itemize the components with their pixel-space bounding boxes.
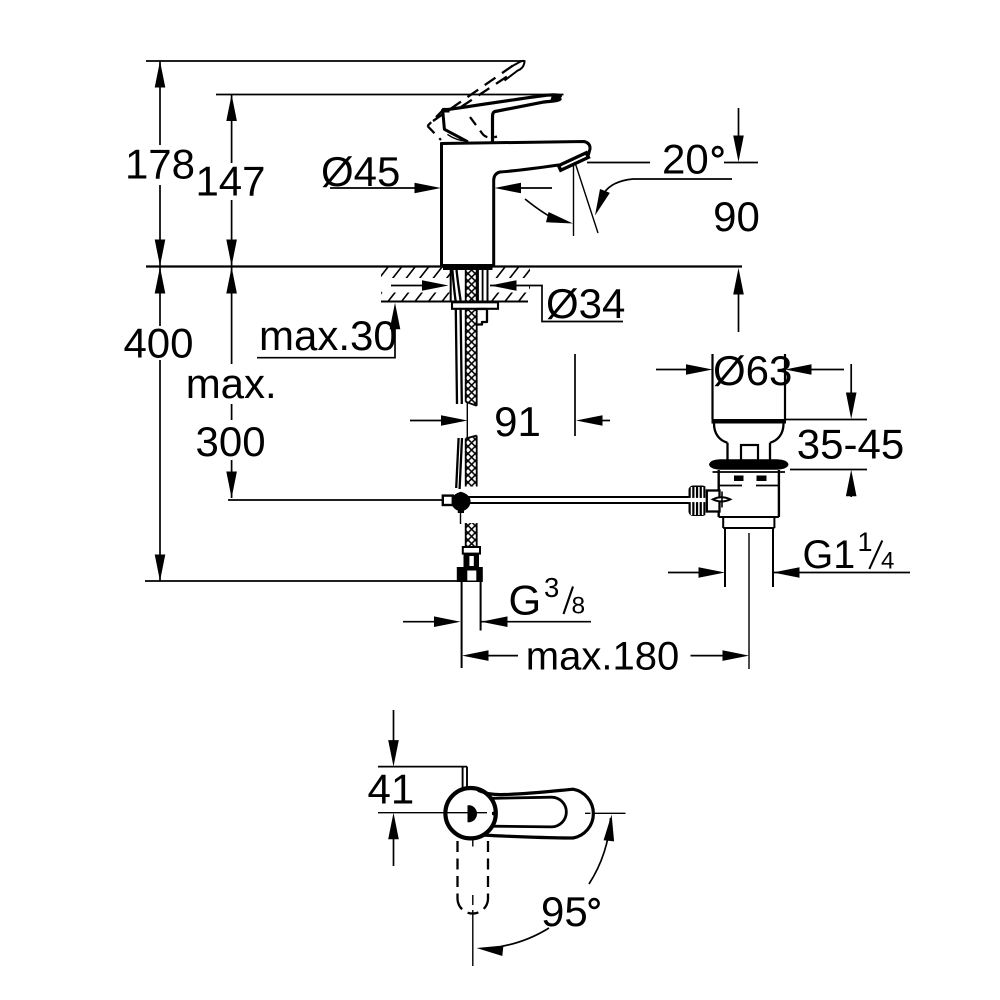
faucet base plate bar [443, 264, 493, 270]
braided hose upper [466, 270, 477, 406]
handle lever tip fill [550, 95, 561, 102]
20deg leader with arrow [604, 179, 732, 193]
dimension 178 vertical line [159, 61, 161, 266]
G3/8 nut [457, 567, 483, 582]
threaded rod in counter hole [478, 270, 483, 302]
top view: body outline [478, 789, 593, 838]
dimension 400 vertical line [159, 267, 161, 581]
top view: inner slot [492, 797, 566, 827]
link between ball and lower hose [460, 512, 462, 524]
drain seal flange [709, 459, 789, 469]
top view: lever tab [463, 767, 467, 789]
dashed handle tip cap [505, 61, 525, 81]
svg-text:91: 91 [494, 398, 541, 445]
dim 91 left arrow [410, 420, 444, 422]
handle solid lever bottom edge [493, 99, 561, 141]
20deg reference line [587, 162, 758, 164]
svg-text:max.30: max.30 [259, 312, 397, 359]
white halo for dia34 dim line [382, 278, 450, 293]
dim 35-45 bottom arrow [850, 493, 852, 497]
dashed handle raised: blade lower [461, 77, 507, 108]
svg-text:41: 41 [368, 766, 415, 813]
svg-text:1: 1 [858, 527, 873, 557]
drain centerline [748, 533, 750, 669]
counter bottom line [381, 301, 528, 303]
drain tailpipe [725, 528, 773, 587]
dim max180 line left arrow [486, 655, 518, 657]
drain taper [714, 424, 784, 443]
drain neck notch [741, 445, 758, 461]
drain body [719, 470, 779, 517]
95deg arc [589, 818, 611, 884]
handle pivot arc [447, 134, 466, 141]
extension line flange bottom [790, 469, 867, 471]
svg-text:35-45: 35-45 [797, 421, 904, 468]
svg-text:95: 95 [541, 888, 588, 935]
top view: dashed spout U [458, 841, 489, 900]
pivot lens [713, 497, 731, 501]
popup knob knurled [689, 486, 708, 517]
svg-text:8: 8 [572, 592, 586, 619]
rod clamp left of ball [443, 496, 453, 505]
popup rod nut [707, 491, 720, 512]
water stream vertical line [573, 164, 575, 236]
drain neck [728, 443, 771, 460]
top view: extension line 41 top [378, 766, 467, 768]
G3/8 hose collar [463, 547, 480, 554]
extension line max300 to rod [228, 499, 443, 501]
svg-text:147: 147 [195, 158, 265, 205]
svg-text:G1: G1 [803, 533, 856, 577]
drain head bottom rim [712, 419, 787, 424]
svg-text:90: 90 [713, 193, 760, 240]
faucet body column [440, 144, 443, 266]
top view: knob circle [445, 788, 495, 838]
dimension 147 vertical line [231, 95, 233, 267]
dim dia45 left arrow [330, 187, 418, 189]
drain body bottom step [719, 516, 779, 518]
handle base left [443, 110, 467, 141]
dim 90 top arrow [738, 108, 740, 139]
hose centerline across break [466, 403, 468, 438]
dimension max300 vertical line [231, 267, 233, 498]
svg-text:3: 3 [544, 572, 559, 603]
dim G1 1/4 left arrow [668, 572, 701, 574]
svg-text:20: 20 [662, 136, 709, 183]
svg-text:178: 178 [125, 141, 195, 188]
mounting nut flange below counter [452, 302, 498, 309]
svg-text:400: 400 [123, 320, 193, 367]
top view: dim 41 top arrow [393, 710, 395, 743]
dim max180 right arrow [691, 655, 727, 657]
dashed handle body outline [428, 110, 498, 140]
extension line 178 top [146, 60, 526, 62]
dim G3/8 left arrow [403, 621, 437, 623]
drain body slots [734, 476, 744, 482]
drain body seam [719, 485, 779, 487]
counter top line [146, 265, 742, 267]
braided hose mid [466, 436, 477, 487]
supply pipe below nut [462, 582, 481, 668]
dim G3/8 right arrow [481, 621, 591, 623]
dim 35-45 top arrow [850, 364, 852, 395]
extension line spout axis [574, 354, 576, 436]
counter hatch left [361, 267, 469, 302]
top view: center dot [492, 812, 496, 816]
dim dia34 right arrow and leader [490, 286, 623, 322]
dim dia45 right arrow [518, 187, 552, 189]
svg-text:4: 4 [881, 548, 894, 575]
top view: vertical center line [472, 838, 474, 967]
pop-up rod horizontal [468, 497, 689, 503]
dim G1 1/4 right arrow [773, 572, 910, 574]
top view: handle pin D [468, 805, 478, 822]
svg-text:max.: max. [186, 360, 277, 407]
top view: dim 41 bottom arrow [393, 836, 395, 866]
dim 90 bottom arrow [738, 290, 740, 332]
svg-text:Ø63: Ø63 [713, 347, 792, 394]
braided hose lower [466, 523, 477, 547]
angle arc at spout [525, 199, 557, 220]
svg-text:G: G [509, 577, 542, 624]
G3/8 compression block [464, 554, 480, 567]
dim dia63 left arrow [656, 369, 689, 371]
hole edges in counter [451, 269, 488, 302]
dashed handle raised: blade upper [433, 66, 513, 122]
extension line 147 [216, 94, 564, 96]
side port fitting below flange [478, 309, 488, 325]
extension line head bottom [786, 419, 867, 421]
handle solid lever top edge [443, 95, 561, 110]
popup drain head [713, 354, 786, 419]
supply hose plain left [452, 270, 457, 405]
counter hatch right [478, 267, 546, 302]
svg-text:300: 300 [196, 418, 266, 465]
svg-text:max.180: max.180 [526, 635, 679, 679]
extension line 400 bottom [145, 580, 460, 582]
handle butt notch [442, 108, 449, 113]
junction ball on rod [451, 492, 470, 513]
dim dia63 right arrow [808, 369, 844, 371]
water stream slanted line [576, 164, 599, 233]
dim dia34 left arrow [391, 285, 426, 287]
svg-text:Ø34: Ø34 [546, 280, 625, 327]
aerator [556, 151, 590, 173]
top view: center line horizontal [378, 812, 626, 815]
dim 91 right arrow [600, 420, 610, 422]
